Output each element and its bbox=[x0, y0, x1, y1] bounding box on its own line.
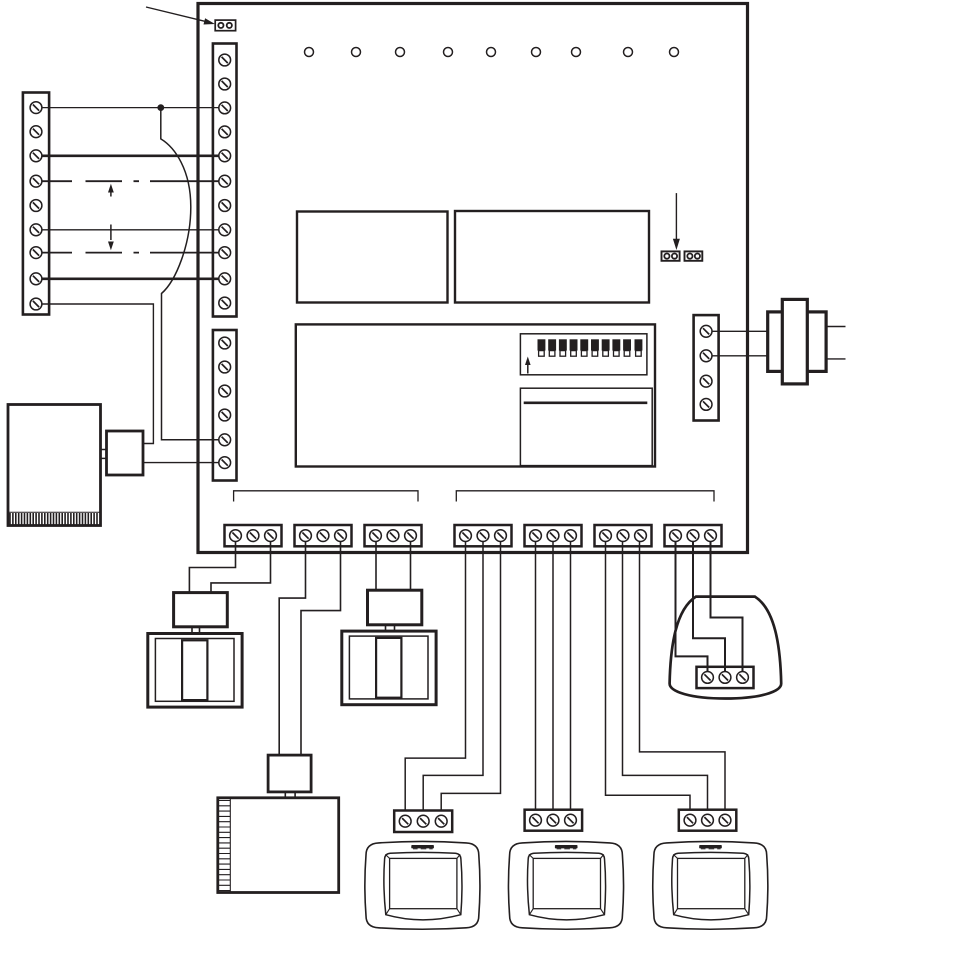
label box 1 bbox=[297, 212, 448, 303]
terminal block B2 bbox=[295, 525, 352, 546]
leader arrow to jumper J3 bbox=[146, 7, 215, 25]
terminal block B5 bbox=[525, 525, 582, 546]
wire B3-3 to damper M2 bbox=[410, 542, 412, 591]
jumper J1 bbox=[662, 251, 680, 260]
zone panel enclosure bbox=[198, 4, 748, 553]
wire outer screw 9 to power module bbox=[42, 304, 154, 444]
stubs power supply to module bbox=[101, 450, 107, 459]
terminal block B7 bbox=[665, 525, 722, 546]
wire B4-1 to thermostat T1 bbox=[405, 542, 465, 811]
transformer T1 bbox=[768, 299, 826, 384]
wire B5-2 to thermostat T2 bbox=[552, 542, 554, 810]
thermostat T1 bbox=[365, 841, 480, 929]
transformer line-voltage leads bbox=[826, 327, 845, 359]
label box 3 bbox=[296, 324, 655, 466]
wire B7-3 to relay bbox=[711, 542, 743, 672]
wire B6-2 to thermostat T3 bbox=[623, 542, 708, 810]
damper D2 bbox=[342, 631, 436, 705]
terminal block B3 bbox=[365, 525, 422, 546]
external terminal strip TB3 bbox=[23, 93, 49, 315]
wire B7-1 to relay bbox=[676, 542, 708, 672]
junction node bbox=[157, 104, 164, 111]
damper motor M1 bbox=[174, 593, 228, 634]
relay terminal block bbox=[697, 667, 754, 688]
thermostat block T1 bbox=[394, 811, 452, 833]
terminal strip TB4 right bbox=[694, 315, 719, 420]
arrow up bbox=[108, 184, 114, 197]
terminal strip TB1 upper bbox=[213, 44, 237, 317]
terminal block B4 bbox=[455, 525, 512, 546]
thermostat block T3 bbox=[679, 810, 737, 831]
wire B2-3 to equipment bbox=[301, 542, 341, 755]
power supply box bbox=[8, 405, 101, 526]
equipment interface module bbox=[268, 755, 311, 798]
arrow down bbox=[108, 225, 114, 251]
damper D1 bbox=[148, 634, 242, 708]
wire B4-3 to thermostat T1 bbox=[441, 542, 500, 811]
label box 4 bbox=[520, 388, 652, 465]
jumper J3 bbox=[215, 20, 235, 31]
wire B4-2 to thermostat T1 bbox=[423, 542, 483, 811]
thermostat T3 bbox=[653, 841, 768, 929]
wire row 4 bbox=[42, 229, 219, 231]
thermostat T2 bbox=[508, 841, 623, 929]
wire B1-3 to damper M1 bbox=[211, 542, 271, 593]
wire row 6 thick bbox=[42, 277, 219, 280]
terminal block B1 bbox=[225, 525, 282, 546]
wire B6-3 to thermostat T3 bbox=[640, 542, 726, 810]
label box 2 bbox=[455, 211, 649, 303]
power module small box bbox=[107, 431, 144, 475]
thermostat block T2 bbox=[525, 810, 583, 831]
wire B1-1 to damper M1 bbox=[189, 542, 235, 593]
wire B2-1 to equipment bbox=[279, 542, 305, 755]
bracket left group bbox=[234, 491, 418, 502]
DIP switch bank bbox=[520, 334, 647, 375]
HVAC equipment box bbox=[218, 798, 339, 893]
wires TB4 to transformer bbox=[712, 331, 768, 356]
damper motor M2 bbox=[368, 590, 422, 631]
wire B6-1 to thermostat T3 bbox=[606, 542, 691, 810]
wire row 1 bbox=[42, 107, 219, 109]
terminal strip TB2 lower bbox=[213, 330, 237, 481]
jumper J2 bbox=[685, 251, 703, 260]
wire B5-3 to thermostat T2 bbox=[570, 542, 572, 810]
wire bundle loop from junction to TB2 bbox=[161, 108, 219, 440]
mounting holes row bbox=[305, 48, 679, 57]
wire B3-1 to damper M2 bbox=[375, 542, 377, 591]
wire row 3 dash-dot bbox=[42, 180, 219, 182]
wire module to TB2 screw 6 bbox=[143, 462, 219, 464]
wire B7-2 to relay bbox=[693, 542, 725, 672]
wire row 5 dash-dot bbox=[42, 252, 219, 254]
wire row 2 thick bbox=[42, 154, 219, 157]
arrow to jumper J1 bbox=[673, 193, 680, 250]
bracket right group bbox=[456, 491, 714, 502]
relay dome bbox=[670, 597, 782, 699]
terminal block B6 bbox=[595, 525, 652, 546]
wire B5-1 to thermostat T2 bbox=[535, 542, 537, 810]
